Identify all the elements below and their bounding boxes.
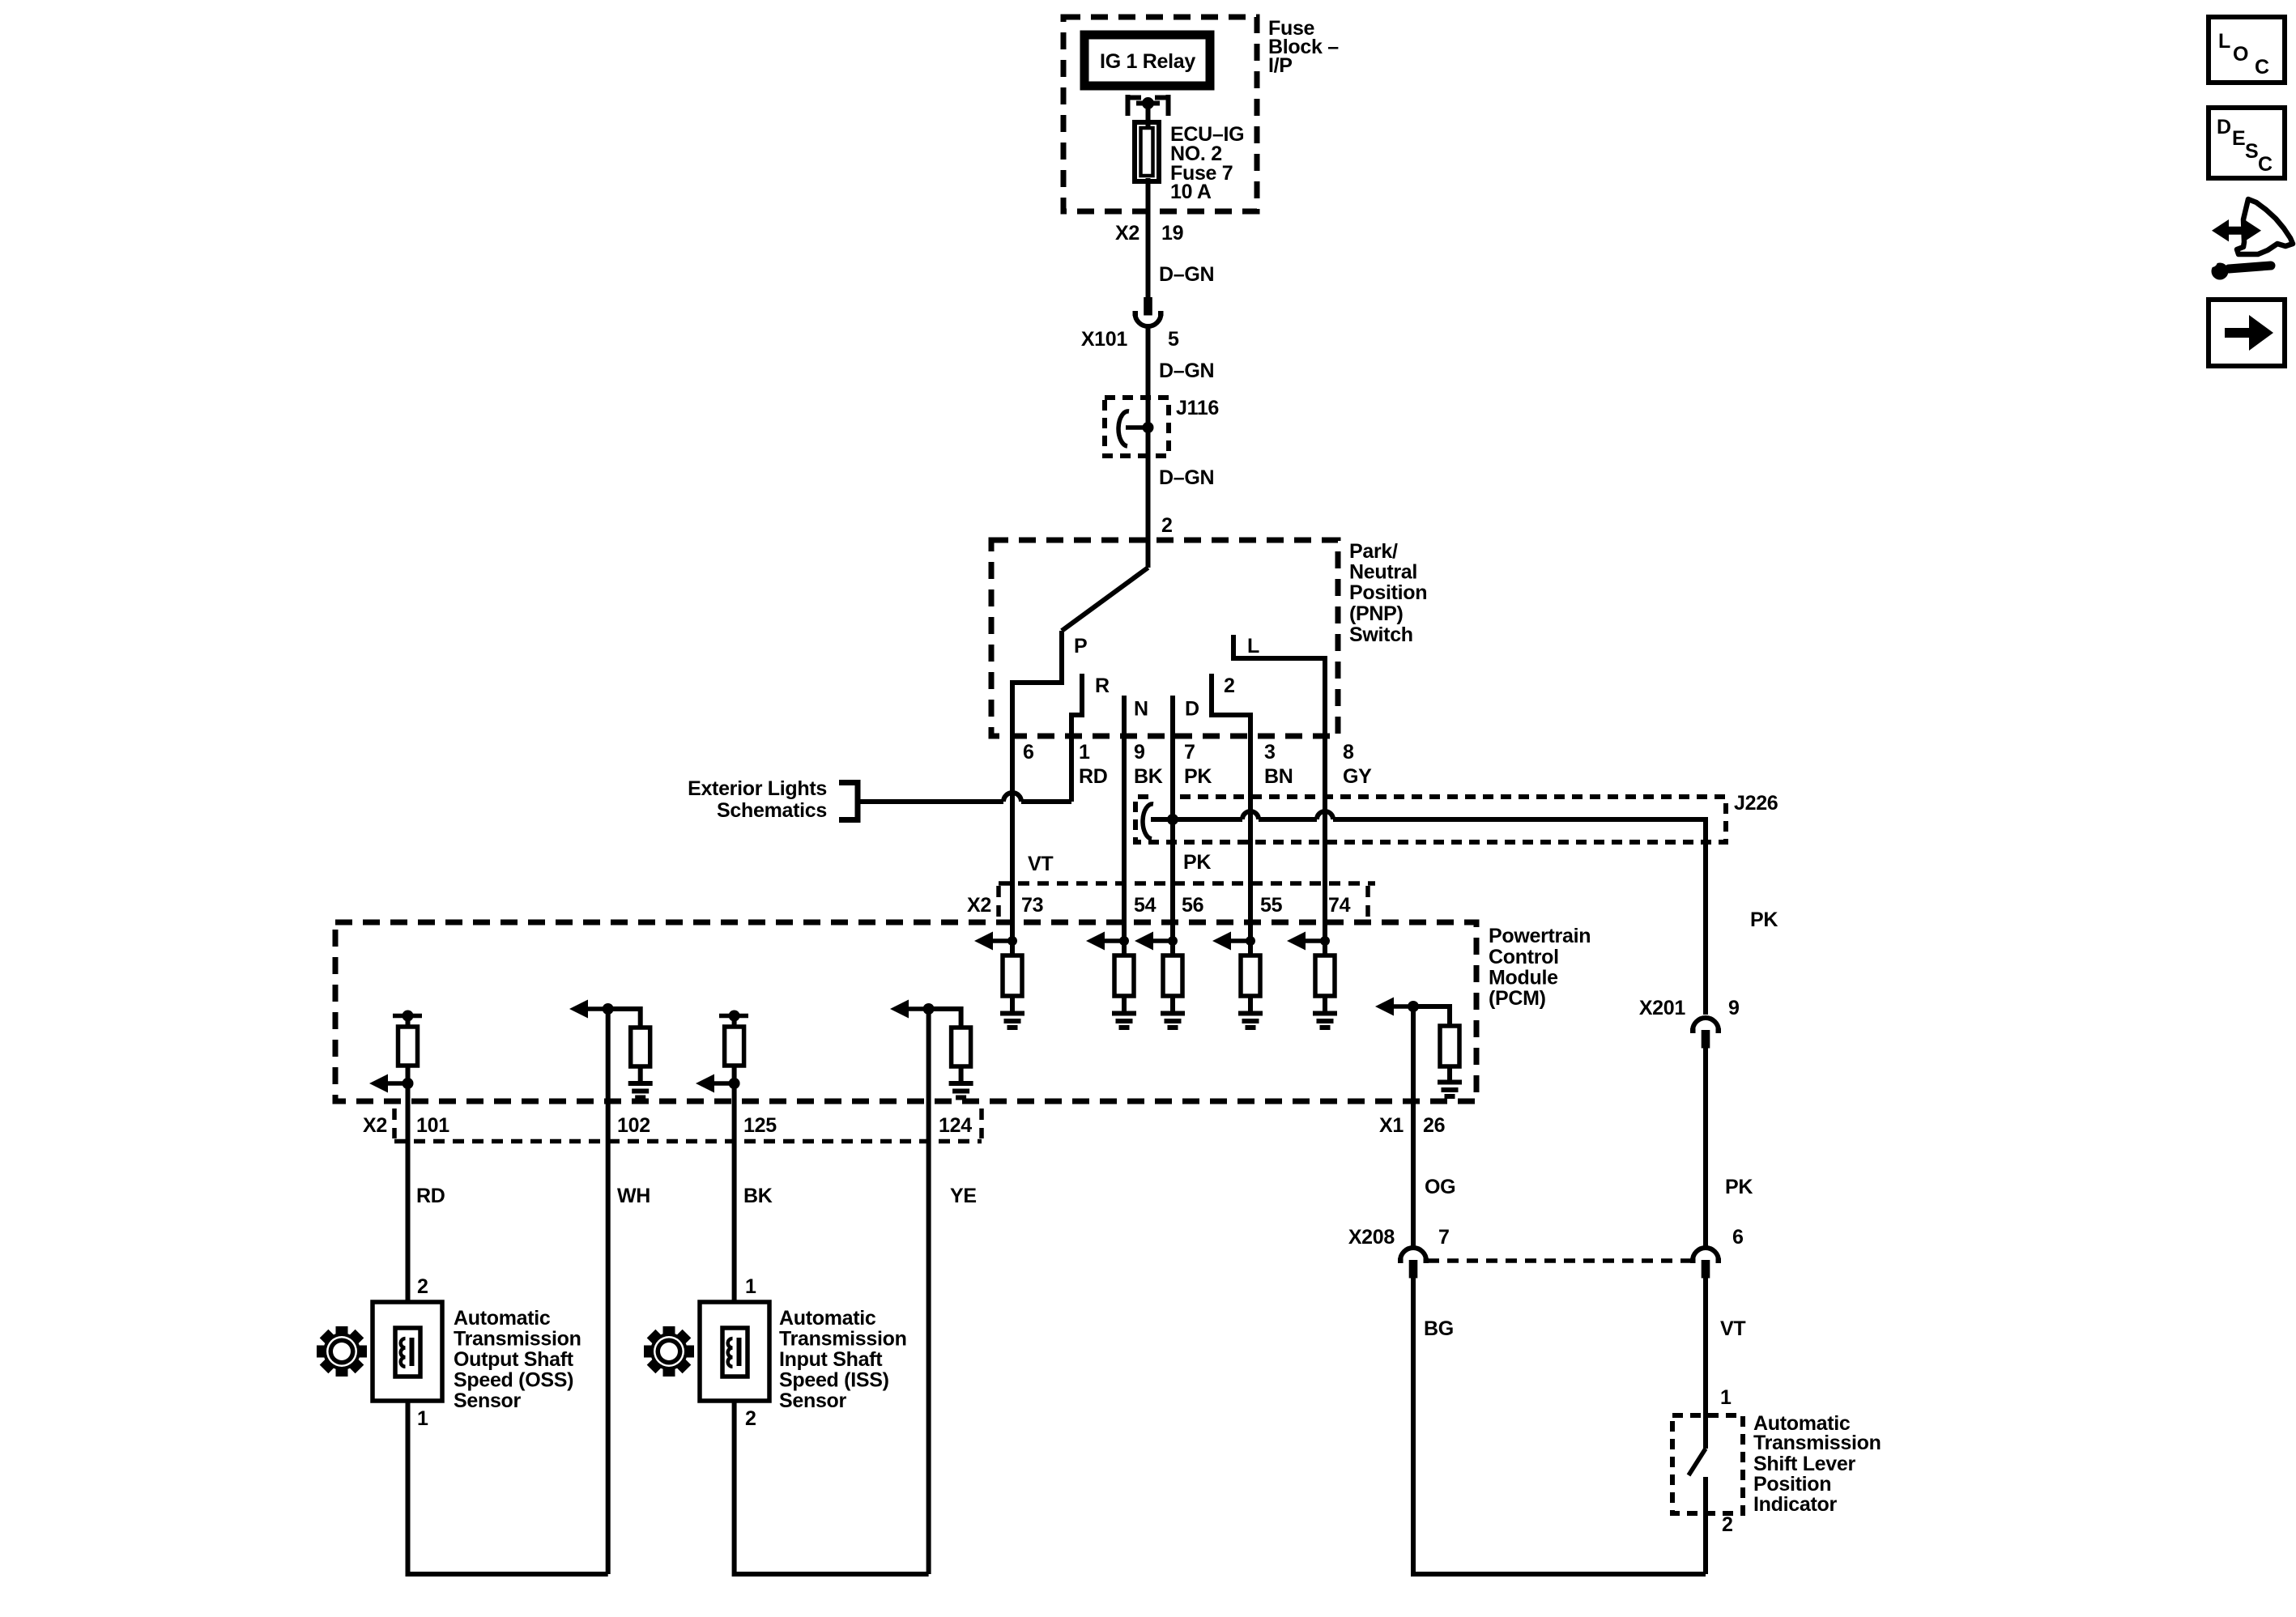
svg-text:L: L [1247, 635, 1259, 657]
arrow PCM 55 [1231, 938, 1250, 943]
wire relay to fuse [1146, 106, 1151, 130]
gear icon OSS [317, 1326, 367, 1377]
resistor PCM 124 [952, 1028, 971, 1066]
svg-text:GY: GY [1343, 765, 1372, 788]
ISS sensor box [700, 1302, 769, 1401]
internal bar PCM 101 [393, 1014, 422, 1019]
svg-text:2: 2 [417, 1275, 428, 1298]
switch blade shift lever indicator [1689, 1449, 1706, 1475]
resistor PCM 102 [631, 1028, 650, 1066]
svg-text:IG 1 Relay: IG 1 Relay [1100, 50, 1195, 73]
wire OSS sensor loop [408, 1401, 608, 1574]
svg-text:1: 1 [1079, 741, 1090, 764]
svg-text:6: 6 [1732, 1226, 1744, 1249]
svg-text:26: 26 [1423, 1114, 1445, 1137]
svg-text:125: 125 [743, 1114, 777, 1137]
wire J226 splice PK to X201 with hops over BN and GY [1151, 817, 1242, 822]
resistor PCM 56 [1170, 941, 1175, 955]
off-page bracket exterior lights [839, 783, 858, 820]
wire to ground 124 [959, 1066, 964, 1082]
ground PCM 124 [949, 1083, 973, 1098]
icon adjust double arrow [2212, 219, 2261, 241]
svg-text:BG: BG [1424, 1317, 1454, 1340]
svg-text:Module: Module [1489, 967, 1558, 989]
node PCM X1-26 [1408, 1001, 1419, 1012]
svg-text:124: 124 [939, 1114, 972, 1137]
ground PCM 102 [628, 1083, 653, 1098]
wire D contact to pin 7 [1170, 696, 1175, 736]
connector X201 female arc [1693, 1018, 1719, 1031]
arrow PCM 56 [1153, 938, 1173, 943]
svg-text:9: 9 [1134, 741, 1145, 764]
svg-text:1: 1 [1720, 1386, 1732, 1409]
wire indicator lower contact [1703, 1477, 1708, 1574]
svg-text:Control: Control [1489, 946, 1559, 968]
svg-text:7: 7 [1438, 1226, 1450, 1249]
svg-text:8: 8 [1343, 741, 1354, 764]
OSS inductive pickup element [395, 1328, 420, 1377]
arrow PCM 101 [388, 1081, 408, 1086]
svg-text:D–GN: D–GN [1159, 466, 1214, 489]
svg-text:Automatic: Automatic [454, 1307, 551, 1330]
wire to ground 55 [1248, 996, 1253, 1013]
svg-text:101: 101 [416, 1114, 449, 1137]
svg-text:VT: VT [1720, 1317, 1745, 1340]
svg-text:Schematics: Schematics [717, 799, 827, 822]
wire D-GN X101 to J116 [1146, 326, 1151, 568]
resistor PCM 74 [1323, 941, 1327, 955]
indicator dashed box [1672, 1415, 1743, 1513]
wire to ground 102 [638, 1066, 643, 1082]
wire BK pin 9 to PCM 54 [1122, 736, 1127, 941]
svg-text:OG: OG [1425, 1176, 1455, 1198]
ground PCM 54 [1112, 1014, 1136, 1028]
PCM dashed box [335, 922, 1476, 1101]
wire VT pin 6 to PCM 73 [1010, 736, 1015, 941]
svg-text:X1: X1 [1379, 1114, 1404, 1137]
svg-text:Exterior Lights: Exterior Lights [688, 777, 827, 800]
wire N contact to pin 9 [1122, 696, 1127, 736]
arrow PCM 54 [1105, 938, 1124, 943]
svg-text:Switch: Switch [1349, 623, 1413, 646]
wire WH PCM 102 to sensor loop [606, 1009, 611, 1574]
svg-text:C: C [2255, 56, 2269, 79]
connector X2 sensor row dashed [394, 1139, 982, 1144]
svg-text:1: 1 [745, 1275, 756, 1298]
connector X208 link dashed [1428, 1258, 1691, 1263]
wire branch to resistor 102 [608, 1009, 641, 1028]
svg-text:BN: BN [1264, 765, 1293, 788]
node relay output [1142, 97, 1154, 109]
svg-text:102: 102 [617, 1114, 650, 1137]
wire L contact to pin 8 [1233, 635, 1325, 736]
svg-text:55: 55 [1260, 894, 1283, 917]
svg-text:X208: X208 [1348, 1226, 1395, 1249]
svg-text:54: 54 [1134, 894, 1157, 917]
resistor PCM X1-26 [1440, 1026, 1459, 1066]
wire 2 contact to pin 3 [1212, 674, 1250, 736]
icon arrow box [2209, 300, 2285, 366]
svg-text:PK: PK [1725, 1176, 1753, 1198]
arrow PCM 102 [588, 1006, 608, 1011]
resistor PCM 125 [732, 1016, 737, 1028]
splice J116 dashed box [1105, 398, 1169, 456]
connector X101 male pin [1144, 297, 1152, 316]
arrow PCM 125 [714, 1081, 735, 1086]
svg-text:BK: BK [743, 1185, 773, 1207]
wire BN pin 3 to PCM 55 [1248, 736, 1253, 941]
wire branch to resistor 124 [929, 1009, 961, 1028]
wire to ground 54 [1122, 996, 1127, 1013]
svg-text:PK: PK [1183, 851, 1211, 874]
svg-text:J226: J226 [1734, 792, 1778, 815]
wire to ground 74 [1323, 996, 1327, 1013]
resistor PCM 54 [1122, 941, 1127, 955]
svg-text:BK: BK [1134, 765, 1163, 788]
wire VT X208 to indicator [1703, 1278, 1708, 1449]
svg-text:E: E [2232, 127, 2245, 150]
connector X101 female cup [1135, 313, 1161, 326]
svg-text:Transmission: Transmission [454, 1328, 581, 1351]
svg-text:WH: WH [617, 1185, 650, 1207]
svg-text:Transmission: Transmission [779, 1328, 907, 1351]
svg-text:PK: PK [1184, 765, 1212, 788]
svg-text:Park/: Park/ [1349, 540, 1398, 563]
node PCM 54 [1119, 936, 1129, 946]
internal bar PCM 125 [719, 1014, 748, 1019]
node J226 splice [1167, 814, 1178, 825]
icon adjust hand outline [2237, 199, 2293, 254]
svg-text:Indicator: Indicator [1753, 1493, 1837, 1516]
node PCM 73 [1007, 936, 1017, 946]
svg-text:P: P [1074, 635, 1087, 657]
svg-text:X2: X2 [1115, 222, 1139, 245]
icon LOC box [2209, 17, 2285, 83]
icon adjust wrench [2229, 266, 2271, 269]
svg-text:X101: X101 [1081, 328, 1128, 351]
svg-text:2: 2 [1722, 1513, 1733, 1536]
wire to ground 56 [1170, 996, 1175, 1013]
svg-text:Automatic: Automatic [779, 1307, 876, 1330]
svg-text:X2: X2 [967, 894, 991, 917]
ground PCM 74 [1313, 1014, 1337, 1028]
ISS inductive pickup element [722, 1328, 748, 1377]
wire exterior lights feed with hop over VT wire [858, 799, 1003, 804]
svg-text:5: 5 [1168, 328, 1179, 351]
node J116 [1143, 422, 1154, 433]
svg-text:YE: YE [950, 1185, 977, 1207]
ground PCM 73 [1000, 1014, 1024, 1028]
wire to ground 73 [1010, 996, 1015, 1013]
arrow PCM 124 [909, 1006, 929, 1011]
svg-text:RD: RD [1079, 765, 1108, 788]
connector X208-7 female arc [1400, 1248, 1426, 1261]
svg-text:I/P: I/P [1268, 54, 1293, 77]
svg-text:1: 1 [417, 1407, 428, 1430]
svg-text:2: 2 [745, 1407, 756, 1430]
svg-text:Sensor: Sensor [454, 1389, 522, 1412]
svg-text:Output Shaft: Output Shaft [454, 1348, 574, 1371]
OSS sensor box [373, 1302, 442, 1401]
wire ISS sensor loop [735, 1401, 929, 1574]
svg-text:(PNP): (PNP) [1349, 602, 1404, 625]
splice J116 symbol [1126, 425, 1148, 430]
wire BK PCM 125 to ISS sensor [732, 1083, 737, 1304]
svg-text:Speed (ISS): Speed (ISS) [779, 1369, 889, 1392]
svg-text:D: D [1185, 698, 1199, 721]
wire BG X208 to indicator loop [1413, 1278, 1706, 1574]
resistor PCM 73 [1010, 941, 1015, 955]
node PCM 102 [603, 1003, 614, 1015]
PNP switch dashed box [991, 540, 1338, 736]
svg-text:10 A: 10 A [1170, 181, 1212, 203]
resistor PCM 55 [1248, 941, 1253, 955]
svg-text:(PCM): (PCM) [1489, 987, 1546, 1010]
fuse block I/P dashed box [1063, 17, 1257, 211]
svg-text:C: C [2258, 153, 2273, 176]
node PCM 56 [1168, 936, 1178, 946]
svg-text:Speed (OSS): Speed (OSS) [454, 1369, 573, 1392]
splice J226 dashed box [1135, 797, 1726, 842]
svg-text:J116: J116 [1176, 397, 1219, 419]
splice J226 hook [1143, 804, 1153, 839]
svg-text:74: 74 [1328, 894, 1351, 917]
relay IG 1 Relay box [1084, 35, 1210, 86]
wire PK pin 7 to PCM 56 [1170, 736, 1175, 941]
svg-text:19: 19 [1161, 222, 1183, 245]
svg-text:3: 3 [1264, 741, 1276, 764]
arrow PCM 73 [993, 938, 1012, 943]
svg-text:Transmission: Transmission [1753, 1432, 1881, 1454]
svg-text:Sensor: Sensor [779, 1389, 847, 1412]
connector X208-7 male pin [1409, 1260, 1418, 1279]
wire branch to resistor X1-26 [1413, 1006, 1450, 1026]
resistor PCM 101 [406, 1016, 411, 1028]
svg-text:Neutral: Neutral [1349, 561, 1417, 584]
svg-text:9: 9 [1728, 997, 1740, 1019]
connector X208-6 male pin [1702, 1260, 1710, 1279]
svg-text:Input Shaft: Input Shaft [779, 1348, 883, 1371]
node PCM 124 [923, 1003, 935, 1015]
svg-text:56: 56 [1182, 894, 1203, 917]
node PCM 101 [403, 1078, 414, 1089]
svg-text:L: L [2218, 30, 2230, 53]
icon DESC box [2209, 108, 2285, 178]
node PCM 74 [1320, 936, 1330, 946]
svg-text:D–GN: D–GN [1159, 263, 1214, 286]
svg-text:7: 7 [1184, 741, 1195, 764]
svg-text:6: 6 [1023, 741, 1034, 764]
wire R contact to pin 1 [1071, 674, 1082, 736]
wire fuse block output D-GN [1146, 178, 1151, 297]
wire YE PCM 124 to sensor loop [926, 1009, 931, 1574]
wire PK X201 to X208 [1703, 1047, 1708, 1247]
wire GY pin 8 to PCM 74 [1323, 736, 1327, 941]
svg-text:PK: PK [1750, 908, 1778, 931]
svg-text:X2: X2 [363, 1114, 387, 1137]
node PCM 125 [729, 1078, 740, 1089]
svg-text:N: N [1134, 698, 1148, 721]
svg-text:R: R [1095, 674, 1110, 697]
svg-text:D: D [2217, 116, 2231, 138]
wire RD pin 1 down to exterior lights feed [1069, 736, 1074, 802]
connector X208-6 female arc [1693, 1248, 1719, 1261]
svg-text:2: 2 [1161, 514, 1173, 537]
svg-text:Position: Position [1753, 1473, 1831, 1496]
wire P contact to pin 6 [1012, 631, 1062, 736]
svg-text:2: 2 [1224, 674, 1235, 697]
arrow PCM X1-26 [1394, 1004, 1413, 1009]
svg-text:RD: RD [416, 1185, 445, 1207]
svg-text:Powertrain: Powertrain [1489, 925, 1591, 947]
node PCM 101 top [403, 1011, 414, 1022]
ground PCM 56 [1161, 1014, 1185, 1028]
svg-text:X201: X201 [1639, 997, 1686, 1019]
connector X201 male pin [1702, 1030, 1710, 1049]
ground PCM X1-26 [1438, 1083, 1462, 1097]
ground PCM 55 [1238, 1014, 1263, 1028]
node PCM 125 top [729, 1011, 740, 1022]
fuse F7 ECU-IG NO.2 10A [1135, 122, 1159, 181]
wire RD PCM 101 to OSS sensor [406, 1083, 411, 1304]
svg-text:Position: Position [1349, 581, 1427, 604]
arrow PCM 74 [1306, 938, 1325, 943]
svg-text:Shift Lever: Shift Lever [1753, 1453, 1855, 1475]
relay output terminal bracket [1128, 95, 1169, 116]
gear icon ISS [644, 1326, 694, 1377]
wire switch wiper from pin 2 to P contact [1062, 568, 1148, 631]
svg-text:73: 73 [1021, 894, 1043, 917]
connector X2 PCM row dashed line [999, 881, 1375, 886]
node PCM 55 [1246, 936, 1255, 946]
svg-text:D–GN: D–GN [1159, 360, 1214, 382]
wire to ground X1-26 [1447, 1066, 1452, 1082]
svg-text:O: O [2233, 43, 2248, 66]
svg-text:VT: VT [1028, 853, 1053, 875]
wire OG PCM 26 down [1411, 1006, 1416, 1247]
svg-text:S: S [2245, 140, 2258, 163]
